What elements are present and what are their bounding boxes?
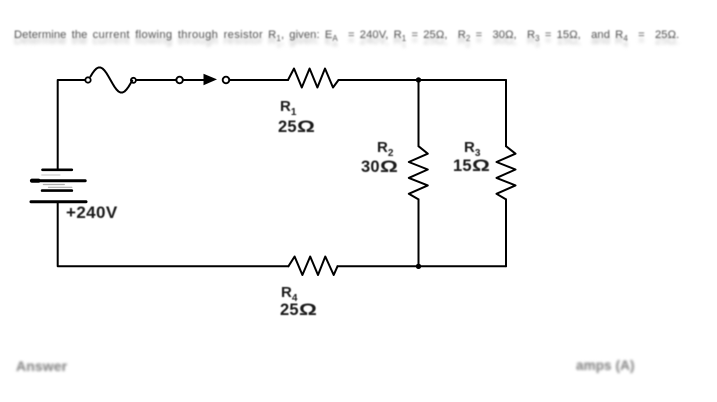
- battery B1 plate short top: [43, 169, 72, 172]
- label R2 value 30 ohm: [361, 159, 393, 176]
- answer prompt text: [16, 359, 67, 373]
- battery B1 faint line 3: [49, 186, 72, 188]
- junction node top (R2/top wire): [416, 77, 421, 82]
- wire right vertical upper (R3 branch): [505, 80, 507, 146]
- label R1: [280, 99, 296, 118]
- wire R2 branch lower: [418, 199, 420, 266]
- wire bottom left segment: [58, 203, 289, 266]
- battery B1 plate long upper arrowhead: [32, 179, 39, 183]
- wire R1 to top-right corner: [339, 79, 507, 81]
- unit text amps: [576, 359, 635, 373]
- battery B1 plate long bottom: [31, 200, 86, 203]
- wire circle to plug arrow: [183, 79, 204, 81]
- resistor R4 zigzag: [288, 257, 337, 276]
- breaker CB1 right terminal circle: [131, 78, 136, 83]
- switch S1 left terminal circle: [176, 77, 183, 84]
- breaker CB1 sine element: [91, 68, 133, 93]
- resistor R1 zigzag: [288, 69, 339, 88]
- switch S1 right terminal circle: [223, 77, 230, 84]
- battery B1 faint line 1: [42, 174, 60, 176]
- battery B1 faint line 2: [43, 184, 64, 186]
- problem statement text: [14, 35, 714, 49]
- wire breaker to switch: [136, 79, 177, 81]
- label R1 value 25 ohm: [278, 119, 310, 136]
- switch S1 plug arrow: [204, 74, 218, 85]
- wire R2 branch upper: [418, 80, 420, 146]
- label battery voltage +240V: [66, 204, 118, 221]
- label R3: [464, 140, 480, 159]
- wire switch to R1: [229, 79, 288, 81]
- battery B1 plate long upper: [32, 179, 85, 182]
- junction node bottom (R2/bottom wire): [416, 264, 421, 269]
- resistor R2 zigzag: [409, 146, 428, 199]
- wire right vertical lower: [505, 199, 507, 266]
- label R2: [377, 140, 393, 159]
- breaker CB1 left terminal circle: [85, 77, 90, 82]
- wire top-left horizontal: [58, 80, 86, 169]
- label R3 value 15 ohm: [453, 158, 485, 175]
- wire bottom right segment: [338, 265, 507, 267]
- label R4: [281, 285, 297, 304]
- resistor R3 zigzag: [497, 146, 516, 199]
- battery B1 plate short lower: [42, 189, 72, 192]
- label R4 value 25 ohm: [280, 302, 312, 319]
